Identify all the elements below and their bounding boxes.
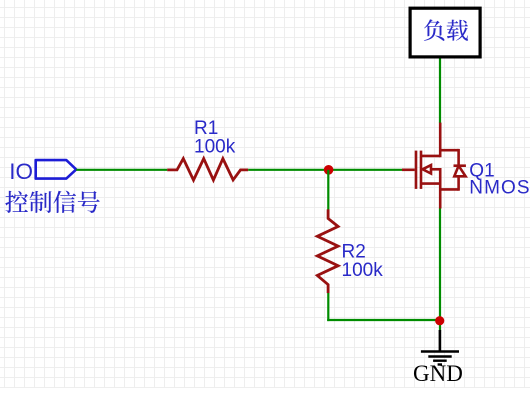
wire R1 to Q1 gate [248,169,402,171]
wire load to Q1 drain [439,59,441,124]
svg-text:NMOS: NMOS [469,178,530,199]
wire bottom horizontal [327,319,440,321]
Q1 top rail [439,149,459,152]
Q1 bottom rail [439,188,459,191]
wire R2 down [327,293,329,321]
Q1 gate bar [415,151,418,189]
Q1 source pin [439,168,442,209]
Q1 body arrow [423,165,431,173]
Q1 gate lead [402,169,415,172]
Q1 body diode cathode bar [454,164,466,167]
Q1 body diode top lead [457,149,460,166]
Q1 drain stub [421,155,440,158]
Q1 body diode bottom lead [457,176,460,190]
junction node B [435,316,444,325]
Q1 drain pin [439,123,442,158]
port IO [36,160,76,179]
svg-text:GND: GND [413,361,463,386]
Q1 body diode triangle [454,166,465,177]
junction node A [324,165,334,175]
Q1 source stub [421,182,440,185]
transistor Q1 NMOS [402,123,466,209]
svg-text:100k: 100k [194,136,236,157]
ground GND [421,330,459,365]
wire port to R1 [76,169,167,171]
Q1 channel bar [420,151,423,189]
wire junction down to R2 [327,170,329,210]
resistor R2 [317,209,338,293]
svg-text:100k: 100k [342,260,384,281]
net label 控制信号 (control signal) [5,191,99,213]
wire source down to junction [439,209,441,331]
label 负载 (load) [424,19,468,41]
Q1 body stub [431,168,440,171]
load box 负载 [410,8,480,57]
resistor R1 [167,159,248,181]
svg-text:IO: IO [9,159,33,184]
